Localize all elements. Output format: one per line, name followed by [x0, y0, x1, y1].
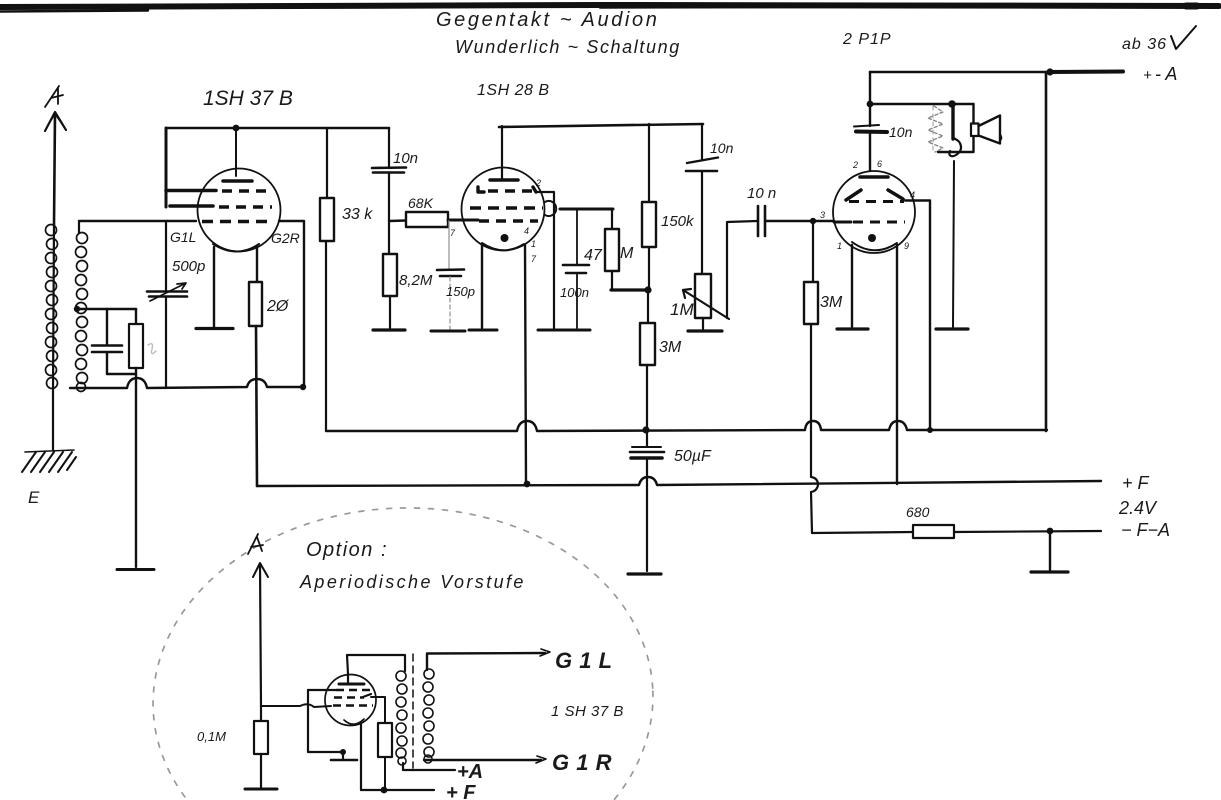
- capacitor C 10n anode V3: [854, 125, 887, 171]
- transformer T secondary: [423, 669, 434, 763]
- inductor L1 primary (on mast): [46, 225, 58, 389]
- ground 50uF: [628, 572, 661, 575]
- svg-text:Option :: Option :: [306, 539, 388, 561]
- resistor 8.2M grid leak: [383, 254, 397, 328]
- tube V3 anode: [860, 175, 888, 179]
- tube V3 grid row1: [849, 201, 930, 431]
- svg-text:1: 1: [837, 241, 842, 251]
- wire speaker branch: [870, 100, 974, 152]
- wire grid input option: [261, 704, 331, 707]
- wire +A option: [403, 763, 455, 770]
- wire grid top: [79, 220, 196, 222]
- wire cathode V3 to ground: [851, 245, 853, 327]
- label 1SH37B option: [551, 703, 624, 720]
- border top rule: [0, 5, 1219, 12]
- wire +A top rail: [867, 68, 1123, 126]
- label G1L: [170, 229, 196, 245]
- wire G1R output: [424, 756, 546, 763]
- capacitor C 50uF electrolytic: [630, 426, 664, 571]
- svg-text:3M: 3M: [659, 339, 682, 356]
- label +F: [1122, 473, 1150, 493]
- svg-text:+: +: [1143, 67, 1152, 84]
- label 2.4V: [1118, 498, 1158, 518]
- tube V3 pin numbers top: [820, 159, 915, 251]
- antenna arrow: [45, 112, 66, 131]
- label 8.2M: [399, 272, 433, 289]
- label 68K: [408, 195, 434, 211]
- svg-text:4: 4: [910, 190, 915, 200]
- ground V4 grid: [331, 759, 357, 762]
- tube V2 cathode: [482, 234, 524, 250]
- tube V2 pin numbers: [450, 178, 541, 264]
- resistor 33k: [320, 128, 334, 431]
- capacitor antenna bypass: [92, 309, 122, 374]
- label Option: [306, 539, 388, 561]
- svg-text:2 P1P: 2 P1P: [842, 31, 892, 48]
- ground 1M: [688, 329, 722, 332]
- svg-text:Gegentakt ~ Audion: Gegentakt ~ Audion: [436, 9, 659, 31]
- label 680: [906, 504, 930, 520]
- svg-text:10n: 10n: [710, 140, 734, 156]
- tube V2 grid row3: [479, 219, 538, 222]
- ground antenna circuit: [117, 568, 154, 571]
- tube V1 cathode: [213, 244, 259, 252]
- resistor 68K grid stopper: [389, 212, 478, 227]
- tube V3 cathode: [852, 234, 897, 250]
- label 47 M: [584, 245, 634, 264]
- svg-text:Aperiodische Vorstufe: Aperiodische Vorstufe: [299, 572, 526, 592]
- svg-text:8,2M: 8,2M: [399, 272, 433, 289]
- speaker LS: [971, 116, 1002, 144]
- svg-text:33 k: 33 k: [342, 206, 373, 223]
- label tube V3 2P1P: [842, 31, 892, 48]
- label 150p: [446, 284, 475, 299]
- wire +F option: [361, 787, 434, 794]
- ground V2 cathode: [469, 329, 497, 332]
- wire to ground: [135, 374, 137, 567]
- transformer core: [412, 654, 414, 768]
- wire rail2 +F filament: [257, 477, 1101, 486]
- node coil tap: [74, 306, 136, 312]
- tube V4 envelope option: [325, 675, 376, 726]
- capacitor C 10n tone: [686, 124, 718, 274]
- wire anode top V2: [499, 124, 703, 178]
- svg-text:150p: 150p: [446, 284, 475, 299]
- wire rail3 -F-A: [812, 528, 1101, 535]
- label 3M: [659, 339, 682, 356]
- capacitor C 10n coupling1: [372, 128, 406, 254]
- label 150k: [661, 213, 695, 230]
- resistor 680: [913, 525, 954, 538]
- svg-text:2Ø: 2Ø: [266, 298, 290, 315]
- ground 0.1M: [245, 788, 277, 791]
- label G2R: [271, 230, 300, 246]
- svg-text:2: 2: [535, 178, 541, 188]
- earth E hatched: [22, 450, 76, 472]
- svg-text:10 n: 10 n: [747, 185, 776, 202]
- resistor antenna leak: [107, 309, 156, 374]
- label 10n: [393, 150, 418, 167]
- svg-text:680: 680: [906, 504, 930, 520]
- svg-text:10n: 10n: [889, 124, 913, 140]
- inductor output choke zigzag sketchy: [928, 106, 943, 152]
- capacitor C 150p: [437, 221, 464, 329]
- label 0.1M: [197, 729, 226, 744]
- svg-text:3M: 3M: [820, 294, 843, 311]
- tube V2 anode: [490, 178, 518, 182]
- label +A option: [457, 761, 483, 783]
- wire right vertical from +A: [1045, 72, 1048, 431]
- svg-text:+A: +A: [457, 761, 483, 783]
- title Wunderlich-Schaltung: [455, 37, 681, 57]
- option bubble outline: [146, 499, 659, 800]
- label E: [28, 488, 40, 507]
- wire choke tap with curl: [949, 104, 961, 327]
- svg-text:50µF: 50µF: [674, 448, 712, 465]
- tube V4 grid row2: [334, 694, 371, 698]
- label +F option: [446, 782, 476, 800]
- resistor 3M grid leak V3: [804, 221, 818, 533]
- svg-text:47: 47: [584, 247, 603, 264]
- tube V4 grid row3: [333, 704, 373, 706]
- transformer T primary: [396, 671, 407, 765]
- svg-text:0,1M: 0,1M: [197, 729, 226, 744]
- ground V3 cathode: [837, 327, 868, 330]
- wire tuned circuit bottom: [70, 378, 306, 390]
- wire anode V4 to transformer: [347, 655, 405, 684]
- label 3M grid: [820, 294, 843, 311]
- svg-text:10n: 10n: [393, 150, 418, 167]
- wire cathode V1 to ground: [213, 247, 215, 327]
- tube V3 grid row2: [834, 221, 905, 224]
- wire filament V2 to rail: [524, 245, 531, 487]
- tube V1 grid row3: [202, 220, 268, 224]
- svg-text:+ F: + F: [1122, 473, 1150, 493]
- tube V2 grid row2: [470, 201, 613, 216]
- svg-text:68K: 68K: [408, 195, 434, 211]
- tube V3 2P1P envelope: [833, 171, 915, 253]
- label -F-A: [1121, 520, 1170, 540]
- tube V2 1SH28B envelope: [462, 168, 545, 251]
- resistor 2O cathode: [249, 247, 262, 486]
- label 10n tone: [710, 140, 734, 156]
- svg-text:150k: 150k: [661, 213, 695, 230]
- svg-text:− F−A: − F−A: [1121, 520, 1170, 540]
- wire anode top V1: [166, 125, 389, 207]
- tube V1 grid row1: [166, 189, 266, 193]
- resistor 0.1M: [254, 706, 268, 787]
- resistor 47M: [605, 209, 652, 294]
- label tube V1 1SH37B: [203, 87, 293, 110]
- svg-text:1SH 28 B: 1SH 28 B: [477, 82, 549, 99]
- svg-text:E: E: [28, 488, 40, 507]
- label Aperiodische Vorstufe: [299, 572, 526, 592]
- capacitor C 100n: [563, 209, 589, 328]
- svg-text:6: 6: [877, 159, 882, 169]
- svg-text:G 1 R: G 1 R: [552, 750, 612, 775]
- svg-text:1 SH 37 B: 1 SH 37 B: [551, 703, 624, 720]
- svg-text:1SH 37 B: 1SH 37 B: [203, 87, 293, 110]
- svg-text:- A: - A: [1155, 64, 1177, 84]
- tube V1 1SH37B envelope: [198, 169, 281, 252]
- ground 100n: [538, 329, 590, 332]
- svg-text:9: 9: [904, 241, 909, 251]
- label ab 36V: [1122, 26, 1196, 53]
- svg-text:100n: 100n: [560, 285, 589, 300]
- svg-text:G 1 L: G 1 L: [555, 648, 613, 673]
- label 1M: [670, 300, 694, 319]
- tube V4 anode: [339, 683, 364, 686]
- svg-text:1: 1: [531, 239, 536, 249]
- tube V1 anode: [223, 179, 252, 183]
- inductor L2 secondary: [76, 221, 88, 392]
- label 33k: [342, 206, 373, 223]
- tube V3 anode slants: [846, 190, 903, 200]
- svg-text:1M: 1M: [670, 300, 694, 319]
- wire cathode V4: [360, 723, 362, 790]
- potentiometer 1M: [683, 221, 757, 329]
- label 10n coupling: [747, 185, 776, 202]
- resistor 150k: [642, 124, 656, 290]
- ground rail3: [1031, 531, 1068, 572]
- label 50uF: [674, 448, 712, 465]
- label 2O: [266, 298, 290, 315]
- svg-text:2.4V: 2.4V: [1118, 498, 1158, 518]
- svg-text:2: 2: [852, 160, 858, 170]
- tube V4 cathode: [344, 719, 364, 724]
- node A option label: [248, 534, 263, 554]
- wire G1L output: [427, 649, 550, 670]
- svg-text:M: M: [620, 245, 634, 262]
- svg-text:Wunderlich ~ Schaltung: Wunderlich ~ Schaltung: [455, 37, 681, 57]
- wire filament V3 to rail: [896, 245, 898, 484]
- svg-text:+ F: + F: [446, 782, 476, 800]
- svg-text:G2R: G2R: [271, 230, 300, 246]
- wire rail1 chassis: [326, 421, 1047, 433]
- tube V4 grid row1: [308, 689, 370, 691]
- ground V1 cathode: [196, 327, 233, 330]
- wire cathode V2 left to ground: [481, 245, 483, 328]
- ground speaker: [936, 327, 968, 330]
- ground 8.2M: [373, 328, 405, 331]
- wire antenna mast: [53, 113, 55, 450]
- wire antenna mast option: [260, 565, 261, 706]
- tube V1 grid row2: [170, 206, 272, 207]
- svg-text:4: 4: [524, 226, 529, 236]
- capacitor C 10n coupling2: [758, 206, 834, 236]
- ground 150p: [431, 330, 465, 333]
- wire G2R return: [279, 221, 304, 387]
- resistor screen option: [371, 697, 392, 789]
- svg-text:3: 3: [820, 210, 825, 220]
- wire grid return loop: [308, 690, 346, 758]
- label G1L: [555, 648, 613, 673]
- svg-text:G1L: G1L: [170, 229, 196, 245]
- svg-text:ab 36: ab 36: [1122, 36, 1167, 53]
- resistor 3M detector load: [640, 290, 655, 430]
- tube V2 grid row1: [478, 187, 554, 328]
- label +A supply: [1143, 64, 1177, 84]
- antenna arrow option: [253, 563, 268, 577]
- label G1R: [552, 750, 612, 775]
- label tube V2 1SH28B: [477, 82, 549, 99]
- label 100n: [560, 285, 589, 300]
- label 10n V3: [889, 124, 913, 140]
- node A antenna label: [45, 86, 63, 107]
- svg-text:500p: 500p: [172, 258, 205, 275]
- capacitor C 500p variable: [147, 221, 187, 387]
- label 500p: [172, 258, 205, 275]
- title Gegentakt-Audion: [436, 9, 659, 31]
